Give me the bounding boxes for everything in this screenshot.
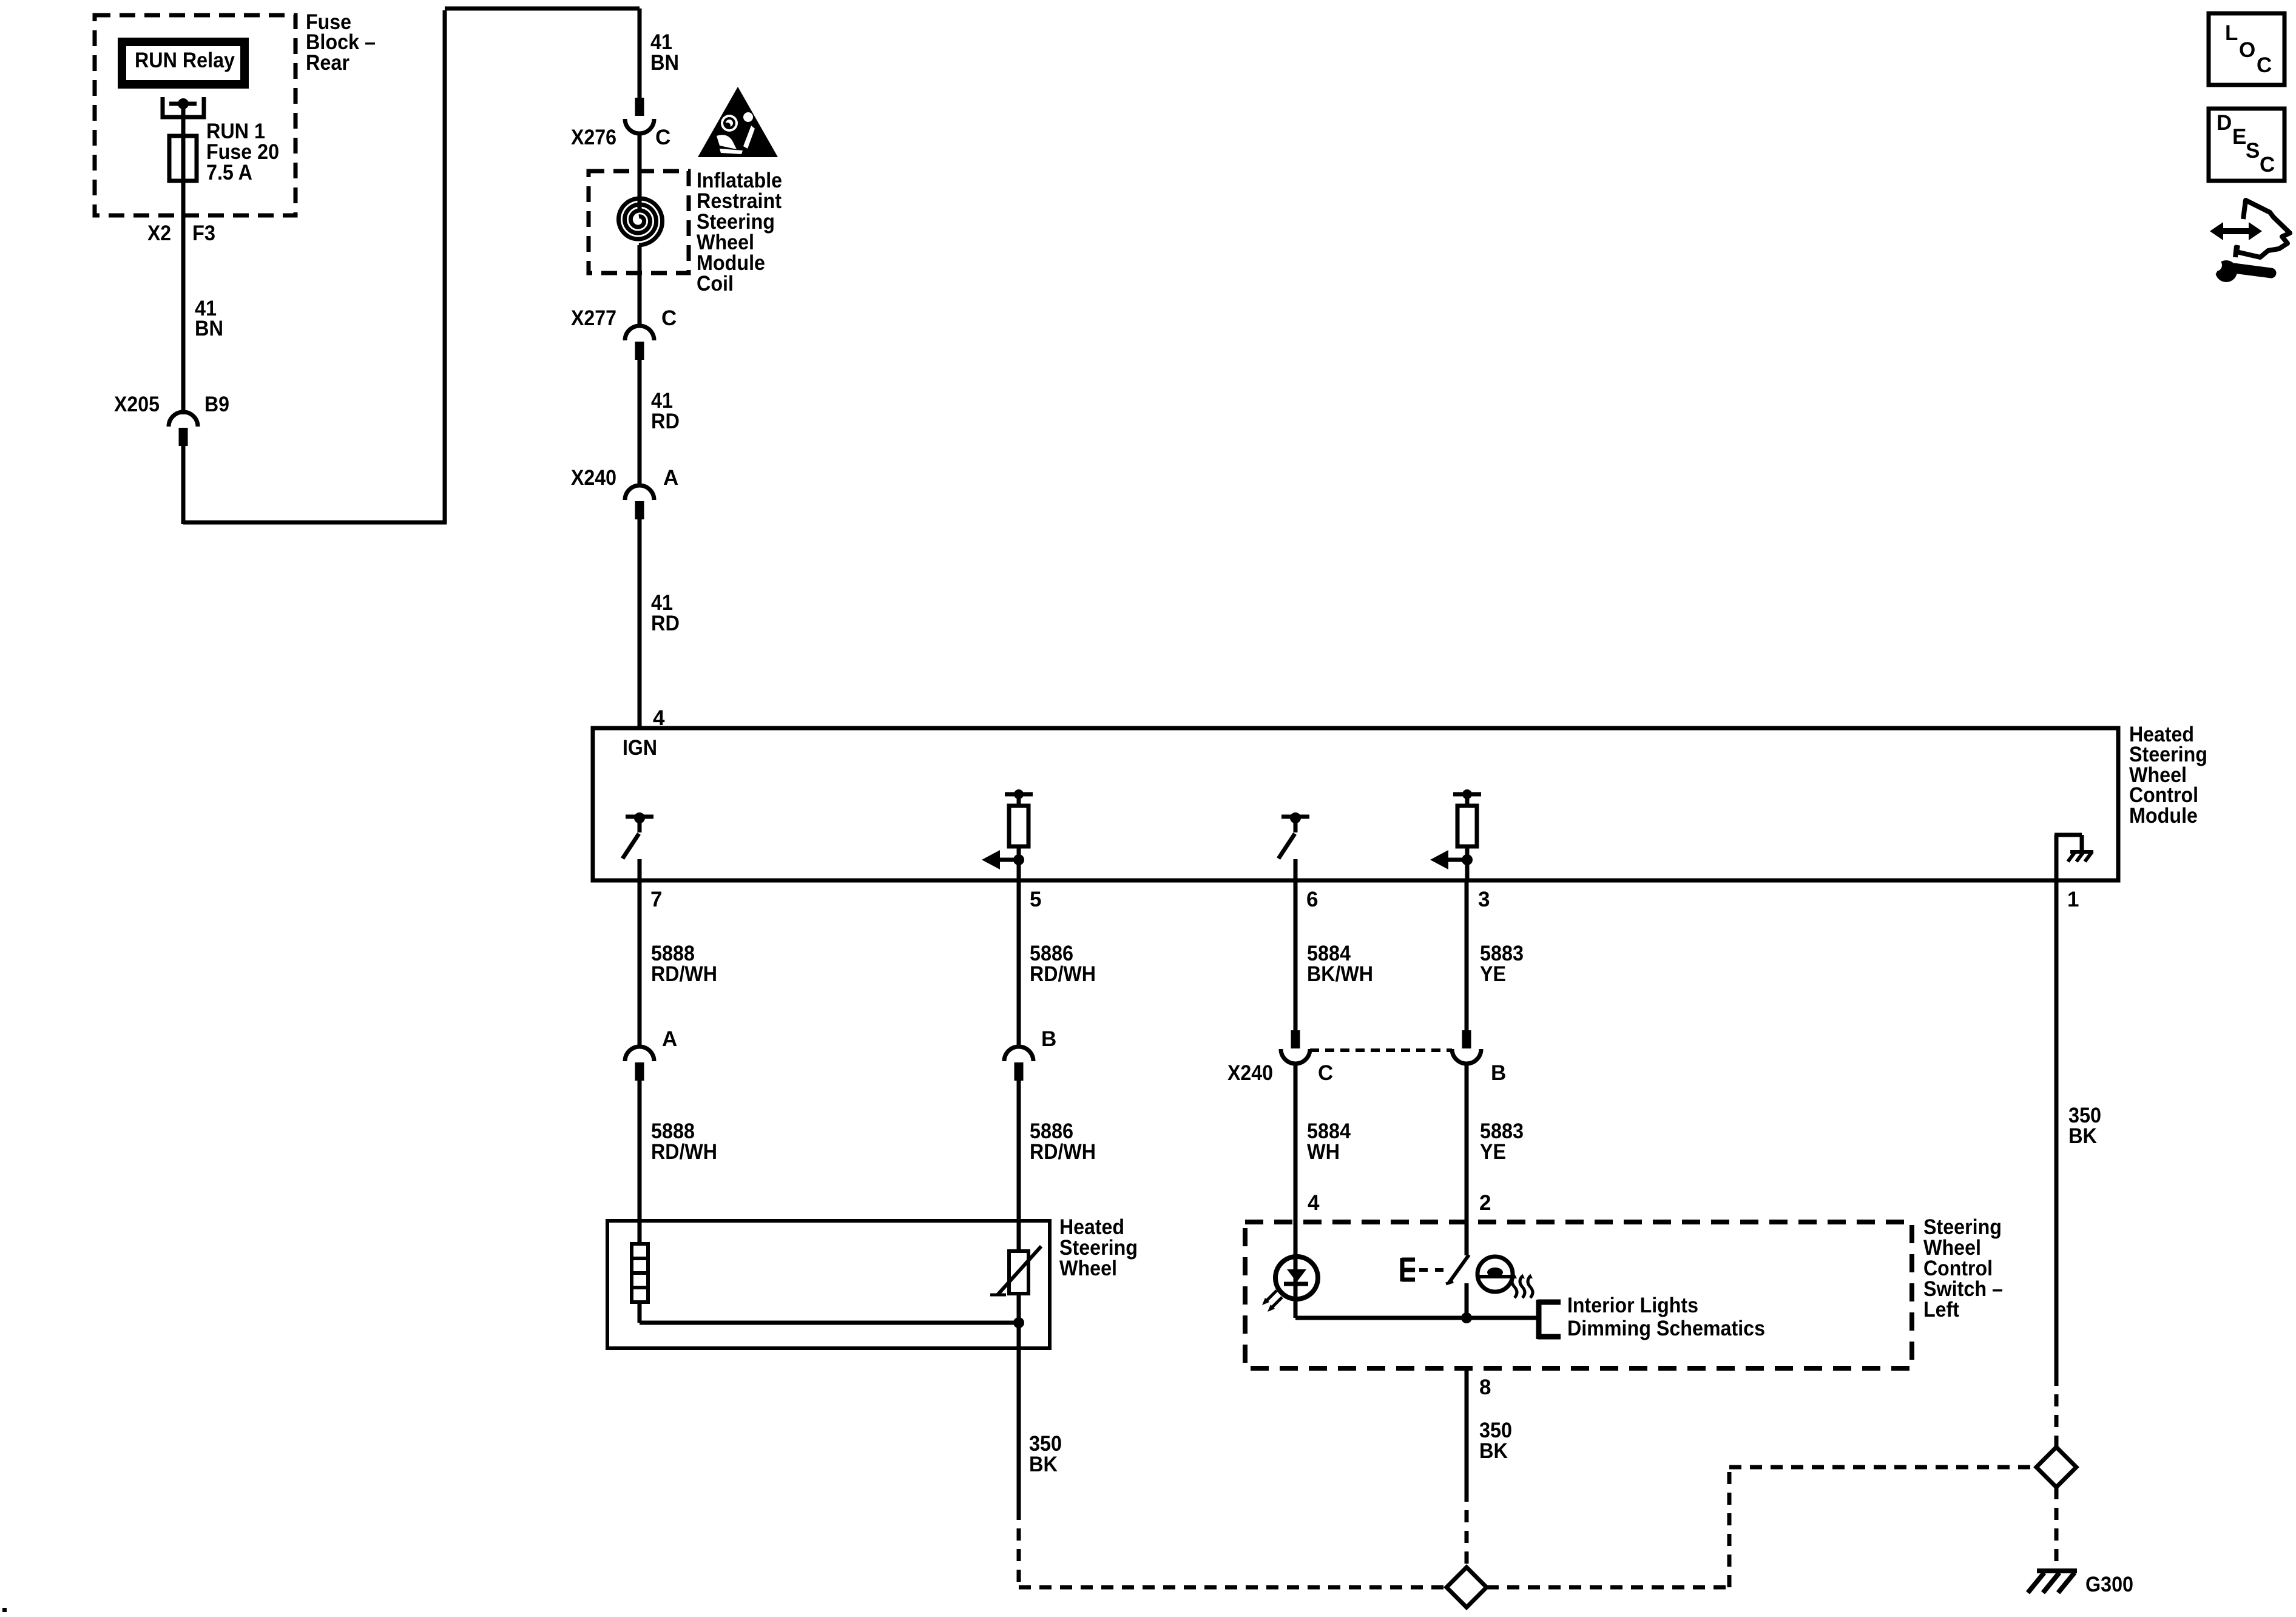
svg-text:7.5 A: 7.5 A xyxy=(206,161,252,184)
svg-text:Coil: Coil xyxy=(697,272,734,295)
svg-text:RD/WH: RD/WH xyxy=(1030,962,1096,986)
svg-text:IGN: IGN xyxy=(623,736,657,760)
svg-text:Interior Lights: Interior Lights xyxy=(1567,1294,1698,1317)
svg-text:Left: Left xyxy=(1923,1298,1959,1322)
svg-text:RD/WH: RD/WH xyxy=(651,962,717,986)
svg-text:Wheel: Wheel xyxy=(1059,1257,1117,1280)
svg-text:4: 4 xyxy=(1308,1191,1320,1215)
svg-text:F3: F3 xyxy=(192,221,215,245)
svg-text:B9: B9 xyxy=(204,393,229,416)
svg-text:C: C xyxy=(655,126,670,149)
svg-text:8: 8 xyxy=(1479,1376,1491,1399)
svg-text:7: 7 xyxy=(650,888,662,911)
svg-text:BK: BK xyxy=(2068,1124,2097,1148)
svg-text:BK: BK xyxy=(1479,1439,1508,1463)
svg-text:X2: X2 xyxy=(147,221,171,245)
svg-text:C: C xyxy=(661,306,677,330)
svg-text:L: L xyxy=(2225,21,2238,45)
svg-text:C: C xyxy=(2260,153,2275,177)
svg-text:RD/WH: RD/WH xyxy=(651,1140,717,1164)
svg-text:D: D xyxy=(2217,111,2232,135)
svg-text:X276: X276 xyxy=(571,126,616,149)
svg-text:BK: BK xyxy=(1029,1453,1058,1476)
svg-text:BK/WH: BK/WH xyxy=(1307,962,1373,986)
svg-text:BN: BN xyxy=(650,51,679,75)
svg-text:G300: G300 xyxy=(2085,1573,2133,1596)
svg-text:RD: RD xyxy=(651,410,680,433)
svg-text:A: A xyxy=(663,466,678,490)
svg-text:E: E xyxy=(2232,125,2246,149)
svg-text:X240: X240 xyxy=(571,466,616,490)
svg-text:C: C xyxy=(2257,53,2272,77)
svg-text:X205: X205 xyxy=(114,393,160,416)
svg-text:B: B xyxy=(1491,1061,1506,1085)
svg-text:A: A xyxy=(662,1027,677,1051)
svg-text:RD: RD xyxy=(651,612,680,635)
svg-text:YE: YE xyxy=(1480,962,1506,986)
svg-text:X277: X277 xyxy=(571,306,616,330)
svg-text:Dimming Schematics: Dimming Schematics xyxy=(1567,1317,1765,1340)
svg-text:Module: Module xyxy=(2129,804,2198,828)
svg-text:2: 2 xyxy=(1479,1191,1491,1215)
svg-text:1: 1 xyxy=(2067,888,2079,911)
svg-text:6: 6 xyxy=(1306,888,1318,911)
svg-text:YE: YE xyxy=(1480,1140,1506,1164)
svg-text:RUN Relay: RUN Relay xyxy=(135,49,235,72)
svg-text:O: O xyxy=(2239,38,2255,62)
svg-text:S: S xyxy=(2246,139,2260,163)
svg-text:3: 3 xyxy=(1478,888,1490,911)
svg-text:RD/WH: RD/WH xyxy=(1030,1140,1096,1164)
svg-text:WH: WH xyxy=(1307,1140,1340,1164)
svg-text:BN: BN xyxy=(195,317,223,340)
svg-text:B: B xyxy=(1041,1027,1056,1051)
svg-text:C: C xyxy=(1318,1061,1333,1085)
svg-text:Rear: Rear xyxy=(306,51,349,75)
svg-text:X240: X240 xyxy=(1227,1061,1273,1085)
svg-text:5: 5 xyxy=(1030,888,1041,911)
